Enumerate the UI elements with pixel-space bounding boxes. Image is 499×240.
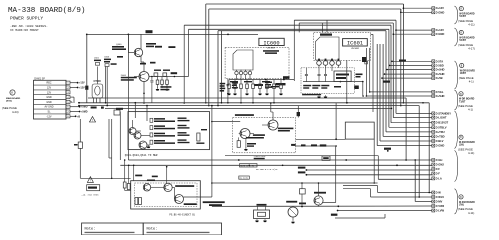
junction trans bbox=[105, 102, 107, 104]
CN601 pin wire +5MD bbox=[70, 106, 79, 108]
svg-text:D+5B: D+5B bbox=[436, 76, 443, 80]
transistor Q603 bbox=[134, 132, 141, 139]
label R602 text bbox=[154, 70, 161, 71]
svg-text:!: ! bbox=[92, 118, 93, 122]
svg-text:D STANDBY: D STANDBY bbox=[436, 111, 452, 115]
CN601 pin 7 bbox=[66, 110, 70, 113]
brace group E bbox=[455, 111, 458, 149]
svg-text:CN601 SP: CN601 SP bbox=[34, 78, 45, 80]
CN601 pin wire +5MD bbox=[70, 111, 79, 113]
bl wire top bbox=[133, 165, 135, 181]
F bus y170 bbox=[306, 169, 431, 171]
Q662 label bbox=[314, 192, 326, 194]
transistor Q604 bbox=[139, 141, 147, 149]
IC601 corner tick bbox=[365, 61, 368, 64]
IC600 label box bbox=[259, 38, 284, 45]
IC600 pin 4 bbox=[248, 71, 251, 74]
svg-text:T1/BT: T1/BT bbox=[459, 101, 466, 103]
IC600 left text bbox=[220, 83, 226, 85]
CN601 pin 8 bbox=[66, 115, 70, 118]
svg-text:-REF.NO.:1000 SERIES-: -REF.NO.:1000 SERIES- bbox=[10, 25, 48, 28]
wire Q600 collector up bbox=[140, 34, 142, 49]
component L600 body bbox=[85, 86, 88, 90]
terminal stub y96.0 bbox=[366, 95, 431, 97]
note right body bbox=[147, 232, 210, 233]
bl comp r661 bbox=[135, 198, 138, 205]
bus y105.7 long bbox=[79, 105, 419, 107]
IC601 text box bbox=[334, 71, 351, 82]
top bus y25.2 bbox=[184, 24, 391, 26]
wire AC vertical bbox=[86, 34, 88, 85]
protector box label bbox=[235, 114, 254, 116]
terminal D+12V y30.1 bbox=[432, 29, 435, 32]
svg-text:4-17): 4-17) bbox=[468, 46, 475, 50]
vertical x184.2 bbox=[183, 25, 185, 103]
svg-text:4-1): 4-1) bbox=[469, 79, 474, 83]
terminal D F y173.5 bbox=[432, 172, 435, 175]
terminal stub y69.5 bbox=[387, 69, 432, 71]
annotation group C bbox=[460, 63, 464, 67]
connector CN601 body bbox=[34, 80, 67, 119]
wire y139.3 bbox=[296, 138, 346, 140]
terminal D VW2 y206.0 bbox=[432, 205, 435, 208]
wire Q601 emitter down bbox=[143, 82, 145, 104]
IC601 pin 3 bbox=[330, 61, 335, 66]
svg-text:W-DR BOARD: W-DR BOARD bbox=[459, 13, 475, 16]
svg-text:AV GND: AV GND bbox=[45, 106, 54, 109]
wire fuse to box bbox=[80, 177, 130, 179]
svg-text:Q601-Q604,Q611 TO MER: Q601-Q604,Q611 TO MER bbox=[125, 154, 158, 157]
component D604 bbox=[283, 76, 290, 79]
transformer CT600 leg 2 bbox=[96, 98, 98, 103]
G1 wire bbox=[378, 192, 430, 194]
string R609 bbox=[166, 77, 168, 81]
terminal D 5BD y65.4 bbox=[432, 64, 435, 67]
vertical x211.9 bbox=[211, 106, 213, 197]
main bus y34 bbox=[87, 33, 258, 35]
annotation group A bbox=[459, 7, 463, 11]
terminal D LVW y210.5 bbox=[432, 209, 435, 212]
svg-text:D+12V: D+12V bbox=[436, 6, 444, 10]
svg-text:D MV: D MV bbox=[436, 200, 443, 204]
note box right bbox=[143, 223, 221, 235]
IC600 under text bbox=[232, 82, 238, 84]
transistor Q660 bbox=[143, 184, 150, 191]
vertical into box x270.8 bbox=[270, 103, 272, 112]
label +5MD f3 bbox=[298, 167, 306, 169]
svg-text:4-1): 4-1) bbox=[468, 108, 473, 112]
vertical x133.7 bbox=[133, 150, 135, 165]
label +5MD left bbox=[116, 108, 123, 110]
svg-text:(1/9): (1/9) bbox=[459, 145, 464, 147]
label +5MD f4 bbox=[298, 171, 306, 173]
driver col2 row 2 bbox=[178, 125, 187, 126]
connector CN601 row line 4 bbox=[34, 99, 67, 101]
IC601 dashed box bbox=[314, 32, 371, 60]
svg-text:L601: L601 bbox=[94, 58, 100, 60]
note box left bbox=[82, 223, 144, 235]
terminal D+5HD y74.1 bbox=[432, 73, 435, 76]
svg-text:D GH: D GH bbox=[436, 158, 443, 162]
svg-text:C606: C606 bbox=[104, 57, 110, 59]
terminal stub y12.3 bbox=[401, 11, 432, 13]
terminal stub y30.1 bbox=[396, 29, 432, 31]
svg-text:PG.B6-40-E(NEXT B): PG.B6-40-E(NEXT B) bbox=[169, 214, 195, 217]
component box small1 bbox=[96, 62, 100, 65]
IC600 dashed box bbox=[225, 47, 289, 78]
blob top right IC601 bbox=[362, 57, 367, 62]
staircase corner to E y131.9 bbox=[386, 131, 432, 133]
IC600 passive string 7 bbox=[266, 80, 268, 85]
connector CN601 row line 2 bbox=[34, 89, 67, 91]
brace group A bbox=[455, 6, 458, 24]
svg-text:D BLV: D BLV bbox=[436, 139, 444, 143]
junction dots bus103 bbox=[422, 102, 424, 104]
svg-text:4-11): 4-11) bbox=[468, 151, 474, 155]
svg-text:C/MOS VER: C/MOS VER bbox=[254, 156, 266, 158]
terminal D WLV y197.0 bbox=[432, 196, 435, 199]
top bus y9 bbox=[209, 8, 401, 10]
fuse grounds bbox=[255, 221, 259, 223]
IC601 pin 2 bbox=[323, 61, 328, 66]
svg-text:NO CHG 5.1-5.4(TM: NO CHG 5.1-5.4(TM bbox=[256, 168, 278, 171]
corner x406 down bbox=[405, 98, 407, 160]
IC601 grounds bbox=[317, 97, 321, 99]
relay dashed box bbox=[135, 183, 198, 207]
F bus y165.3 bbox=[120, 164, 432, 166]
svg-text:D LVW: D LVW bbox=[436, 209, 445, 213]
terminal D F y169.0 bbox=[432, 168, 435, 171]
F bus y179.3 bbox=[378, 178, 432, 180]
junction dots y76.5 bbox=[151, 76, 153, 78]
IC601 riser x322 bbox=[322, 23, 324, 32]
IC600 pin 3 bbox=[244, 71, 247, 74]
connector CN601 row line 5 bbox=[34, 103, 67, 105]
protector ground bbox=[244, 149, 248, 151]
driver col2 row 3 bbox=[178, 132, 187, 133]
svg-text:D B12V3T: D B12V3T bbox=[436, 121, 449, 125]
svg-text:D F: D F bbox=[436, 172, 441, 176]
brace group F bbox=[455, 151, 458, 182]
svg-text:D GND: D GND bbox=[436, 144, 445, 148]
svg-text:D+5HD: D+5HD bbox=[436, 68, 445, 72]
F bus y174.8 bbox=[306, 174, 431, 176]
IC601 pin 4 bbox=[336, 61, 341, 66]
relay solid box bbox=[131, 181, 201, 209]
staircase corner to E y113.4 bbox=[396, 112, 432, 114]
terminal stub y61.3 bbox=[392, 60, 432, 62]
IC601 riser x294 bbox=[293, 20, 295, 32]
driver col2 row 1 bbox=[178, 118, 187, 119]
driver gnd bbox=[147, 147, 151, 149]
svg-text:D 5GL: D 5GL bbox=[436, 90, 444, 94]
IC601 body bbox=[316, 37, 340, 60]
transistor Q612 bbox=[240, 129, 250, 139]
top bus y30.7 bbox=[218, 30, 386, 32]
IC601 right stub y40.5 bbox=[366, 40, 370, 42]
top bus y4 bbox=[206, 3, 404, 5]
label main relay text bbox=[203, 201, 225, 203]
line y76.5 bbox=[149, 76, 189, 78]
Q662 wires bbox=[318, 183, 320, 196]
svg-text:TA/BT: TA/BT bbox=[459, 39, 466, 42]
F label box mute bbox=[240, 164, 258, 167]
driver row 4 bbox=[150, 140, 153, 144]
top bus y29.3 bbox=[189, 28, 389, 30]
bl labels bbox=[135, 175, 142, 177]
terminal D 5TA y61.3 bbox=[432, 60, 435, 63]
fuse label fb601 bbox=[74, 144, 78, 146]
terminal D GND y145.6 bbox=[432, 144, 435, 147]
fuse FB660 label bbox=[257, 204, 267, 206]
IC600 passive string 1 bbox=[228, 80, 230, 85]
terminal D 5GL y91.9 bbox=[432, 90, 435, 93]
top bus y23 bbox=[299, 22, 393, 24]
vertical x130.5 bbox=[130, 150, 132, 178]
svg-text:POWER SUPPLY: POWER SUPPLY bbox=[10, 15, 43, 21]
vertical x415 bbox=[414, 160, 416, 202]
svg-text:GND: GND bbox=[46, 96, 52, 99]
string C611 bbox=[161, 77, 163, 81]
bl wires2 bbox=[151, 186, 164, 188]
string x227.9 bbox=[227, 79, 229, 103]
CN601 pin 4 bbox=[66, 96, 70, 99]
IC601 pin 1 bbox=[317, 61, 322, 66]
staircase corner to E y141.0 bbox=[380, 140, 432, 142]
svg-text:D+TRU: D+TRU bbox=[436, 130, 445, 134]
transistor Q661 bbox=[164, 183, 172, 191]
svg-text:-40.:700 TERM: -40.:700 TERM bbox=[81, 194, 99, 197]
wire L600 down bbox=[86, 90, 88, 103]
staircase corner to E y127.3 bbox=[389, 126, 432, 128]
transformer CT600 core bbox=[95, 86, 100, 95]
line y155.7 bbox=[225, 155, 378, 157]
svg-text:12V: 12V bbox=[47, 87, 52, 90]
terminal D B12V3T y122.7 bbox=[432, 121, 435, 124]
F dots bbox=[396, 164, 398, 166]
driver wires bbox=[141, 135, 150, 137]
IC600 under bus bbox=[229, 79, 294, 81]
bl vertical from top bbox=[166, 167, 168, 184]
brace group C bbox=[455, 61, 458, 89]
annotation main board circle bbox=[10, 90, 15, 95]
bus vertical x391 bbox=[390, 25, 392, 123]
driver col2 row 4 bbox=[178, 139, 187, 140]
IC601 right stub y34 bbox=[371, 33, 374, 35]
IC600 passive string 4 bbox=[246, 80, 248, 85]
terminal D GND y12.3 bbox=[432, 11, 435, 14]
CN601 pin wire +B bbox=[70, 115, 75, 117]
IC600 passive string 3 bbox=[240, 80, 242, 85]
protector wires bbox=[239, 133, 240, 135]
bl label q661 bbox=[184, 203, 197, 205]
vertical x373 bbox=[372, 34, 374, 112]
protector text q612 bbox=[253, 134, 265, 136]
string R608 bbox=[157, 77, 159, 81]
CN601 pin 3 bbox=[66, 91, 70, 94]
IC600 passive string 5 bbox=[252, 80, 254, 85]
wire into protector box bbox=[212, 121, 240, 123]
svg-text:+B: +B bbox=[77, 115, 80, 118]
driver feed drops bbox=[134, 102, 136, 104]
IC601 right stub y37.5 bbox=[369, 37, 372, 39]
svg-text:TA/BT: TA/BT bbox=[459, 15, 466, 18]
svg-text:12V: 12V bbox=[47, 91, 52, 94]
svg-text:W-DR BOARD: W-DR BOARD bbox=[460, 69, 476, 72]
transistor Q600 bbox=[134, 48, 142, 56]
svg-text:D+12V: D+12V bbox=[436, 28, 444, 32]
svg-text:+12V: +12V bbox=[79, 87, 85, 90]
svg-text:(8/10): (8/10) bbox=[6, 101, 12, 103]
label box B small bbox=[322, 156, 330, 160]
driver row 2 bbox=[150, 126, 153, 130]
CN601 pin wire +12V bbox=[70, 87, 77, 89]
connector CN601 row line 1 bbox=[34, 84, 67, 86]
vertical x120.3 bbox=[119, 112, 121, 160]
CN601 pin wire +12V bbox=[70, 82, 77, 84]
svg-text:D GND: D GND bbox=[436, 10, 445, 14]
svg-text:D+TBD: D+TBD bbox=[436, 134, 445, 138]
transistor Q662 bbox=[314, 196, 323, 205]
corner x403 down bbox=[402, 4, 404, 103]
wire Q601 base bbox=[134, 76, 139, 78]
bus vertical x403.4 bbox=[402, 4, 404, 8]
fuse F660 body bbox=[254, 210, 270, 219]
svg-text:UN MER: UN MER bbox=[267, 48, 276, 50]
svg-text:D+5HD: D+5HD bbox=[436, 72, 445, 76]
bus vertical x386 bbox=[385, 31, 387, 132]
svg-text:D GN2: D GN2 bbox=[436, 163, 445, 167]
CN601 pin 1 bbox=[66, 81, 70, 84]
IC600 passive string 2 bbox=[234, 80, 236, 85]
small rect on x117 bbox=[114, 110, 120, 115]
transformer CT600 body bbox=[92, 84, 103, 98]
corner x400.8 down bbox=[400, 9, 402, 106]
terminal D+TBD y136.4 bbox=[432, 135, 435, 138]
IC601 riser x299 bbox=[298, 23, 300, 32]
svg-text:IC600: IC600 bbox=[263, 40, 279, 46]
IC601 label box bbox=[343, 39, 368, 46]
relay ground bbox=[291, 222, 295, 224]
IC601 caps row bbox=[305, 74, 308, 76]
G5 wire y210.5 bbox=[338, 210, 432, 212]
svg-text:IC601: IC601 bbox=[347, 41, 363, 47]
protector c614 text bbox=[247, 143, 256, 145]
transformer CT600 leg 1 bbox=[92, 98, 94, 103]
svg-text:!: ! bbox=[90, 179, 91, 183]
IC600 passive string 8 bbox=[273, 80, 275, 85]
+B label mid bbox=[384, 148, 391, 150]
vertical x105.6 bbox=[105, 67, 107, 103]
wire Q600 emitter down bbox=[140, 56, 142, 62]
bl label q660 bbox=[175, 185, 194, 187]
bus vertical x380 bbox=[379, 44, 381, 141]
component on x298 bbox=[297, 106, 299, 118]
vertical x80 fuse bbox=[79, 119, 81, 142]
vertical x188.5 bbox=[188, 29, 190, 76]
vertical x205.8 bbox=[205, 4, 207, 103]
connector CN601 row line 3 bbox=[34, 94, 67, 96]
terminal D+5HD y69.5 bbox=[432, 68, 435, 71]
svg-text:W-338 BOARD: W-338 BOARD bbox=[459, 201, 475, 204]
IC600 body bbox=[233, 50, 253, 70]
transformer CT600 leg 3 bbox=[99, 98, 101, 103]
svg-text:W-DR BOARD: W-DR BOARD bbox=[459, 36, 475, 39]
bottom line y218 bbox=[335, 217, 385, 219]
svg-text:GND: GND bbox=[46, 101, 52, 104]
IC600 passive string 6 bbox=[259, 80, 261, 85]
svg-text:D WLV: D WLV bbox=[436, 195, 445, 199]
terminal D LA y178.4 bbox=[432, 177, 435, 180]
note left body bbox=[85, 232, 135, 233]
bus y98 long bbox=[88, 97, 406, 99]
connector CN601 row line 6 bbox=[34, 108, 67, 110]
brace group G bbox=[455, 189, 458, 214]
svg-text:13/BT: 13/BT bbox=[460, 73, 467, 75]
terminal stub y91.9 bbox=[370, 91, 432, 93]
wire +B row y146 bbox=[296, 145, 337, 147]
terminal D+TRU y131.9 bbox=[432, 130, 435, 133]
staircase corner to E y117.6 bbox=[393, 117, 432, 119]
bus vertical x400.8 bbox=[400, 9, 402, 12]
terminal D+12V y8.2 bbox=[432, 7, 435, 10]
svg-text:W-DR BOARD: W-DR BOARD bbox=[459, 98, 475, 101]
IC600 pin 2 bbox=[239, 71, 242, 74]
terminal stub y65.4 bbox=[390, 64, 432, 66]
terminal D GH y160.0 bbox=[432, 159, 435, 162]
bl dot bbox=[155, 166, 157, 168]
annotation group D bbox=[459, 92, 463, 96]
junction main bus x228 bbox=[227, 34, 229, 36]
top bus y20.2 bbox=[294, 19, 396, 21]
IC600 passive labels bbox=[230, 81, 238, 82]
svg-text:D-LIGHT: D-LIGHT bbox=[436, 116, 447, 120]
CN601 pin 6 bbox=[66, 105, 70, 108]
vertical x374 long bbox=[373, 139, 375, 183]
diode D661 bbox=[301, 183, 303, 189]
svg-text:D LA: D LA bbox=[436, 176, 442, 180]
svg-text:D 5TA: D 5TA bbox=[436, 59, 444, 63]
terminal D+5HD y96.0 bbox=[432, 95, 435, 98]
vertical x208.8 bbox=[208, 9, 210, 106]
svg-text:D600: D600 bbox=[121, 75, 127, 77]
svg-text:4-11): 4-11) bbox=[468, 23, 474, 27]
terminal D 5TBLV y127.3 bbox=[432, 126, 435, 129]
transistor Q602 bbox=[129, 128, 136, 135]
IC601 inner line y81.6 bbox=[303, 81, 363, 83]
terminal D GN2 y164.5 bbox=[432, 163, 435, 166]
IC601 col labels bbox=[303, 85, 311, 87]
brace group B bbox=[455, 28, 458, 46]
IC601 caption bbox=[302, 94, 321, 95]
svg-text:XX MARK:NO MOUNT: XX MARK:NO MOUNT bbox=[10, 29, 39, 32]
corner x429 down bbox=[428, 103, 430, 193]
svg-text:4-24): 4-24) bbox=[12, 110, 19, 114]
svg-text:D F: D F bbox=[436, 167, 441, 171]
corner lines rb2 bbox=[343, 188, 371, 190]
bus y108.4 bbox=[105, 107, 392, 109]
string C610 bbox=[151, 77, 153, 81]
vertical x336 bbox=[335, 103, 337, 139]
svg-text:MA-338 BOARD(8/9): MA-338 BOARD(8/9) bbox=[8, 7, 85, 15]
+B label bottom bbox=[331, 214, 338, 216]
label Q600 right text bbox=[146, 43, 156, 45]
vertical x218 bbox=[217, 31, 219, 106]
bus vertical x383.1 bbox=[382, 44, 384, 136]
IC601 riser x327 bbox=[326, 20, 328, 32]
CN601 pin 5 bbox=[66, 100, 70, 103]
label D601 bbox=[146, 30, 153, 33]
